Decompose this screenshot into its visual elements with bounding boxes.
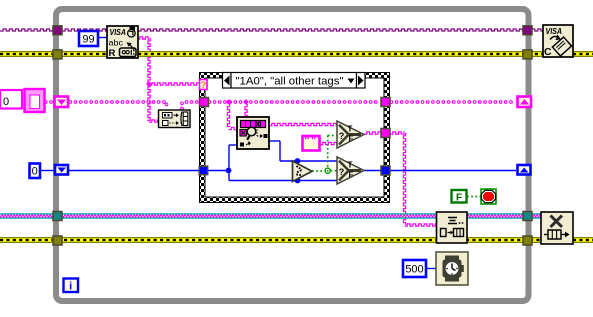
svg-text:VISA: VISA <box>546 27 563 36</box>
constant 0 int <box>30 164 41 179</box>
case structure border <box>199 72 390 203</box>
wire 99 to VISA Read <box>98 37 107 39</box>
svg-text:0: 0 <box>3 96 9 108</box>
shift register int left <box>55 165 68 175</box>
node Build Array <box>159 110 191 128</box>
case tunnel string out right <box>381 129 390 138</box>
wire read buffer out of VISA Read <box>137 37 150 84</box>
node Wait ms <box>436 252 468 285</box>
wire string array out of Build Array <box>181 101 198 110</box>
wire int down and right (lower run) <box>229 171 337 181</box>
wire string array inside case <box>208 101 377 104</box>
wire Search index output <box>269 141 337 161</box>
wire int up to Search element input <box>229 145 237 171</box>
wire junction array-to-search-top <box>243 99 249 105</box>
node Select int <box>337 157 364 184</box>
wire 500 to Wait ms <box>426 268 436 270</box>
wire junction greater-equal bottom <box>295 178 301 184</box>
case tunnel int right <box>381 166 390 175</box>
constant 99 <box>79 31 98 46</box>
tunnel error bottom right <box>523 236 532 245</box>
svg-text:F: F <box>349 170 354 179</box>
wire boolean to select2 <box>331 170 338 172</box>
wire boolean F to stop terminal <box>467 196 481 198</box>
node VISA Read U1 <box>107 26 138 59</box>
wire string to Enqueue element <box>390 132 437 226</box>
wire select1 output to tunnel <box>364 132 381 134</box>
wire boolean junction <box>325 168 330 173</box>
wire 0 to left shift register <box>41 170 54 172</box>
node Select string <box>337 121 364 148</box>
tunnel queue left <box>53 212 62 221</box>
wire error top-right <box>138 52 593 57</box>
case tunnel string array right <box>381 98 390 107</box>
svg-text:99: 99 <box>82 34 94 46</box>
svg-text:?: ? <box>339 167 345 177</box>
wire VISA resource (right) <box>138 29 543 31</box>
wire select2 output to tunnel <box>364 170 381 172</box>
tunnel VISA purple right <box>523 26 532 35</box>
terminal loop iteration i <box>64 279 79 293</box>
constant empty string <box>303 135 320 151</box>
tunnel error top right <box>523 50 532 59</box>
svg-text:T: T <box>348 125 353 134</box>
wire string array into Build Array <box>165 103 168 106</box>
svg-text:"": "" <box>304 135 317 147</box>
shift register string right <box>518 97 532 108</box>
wire string array from shift register <box>69 101 165 104</box>
wire string array const to left shift register <box>45 101 53 104</box>
svg-text:R: R <box>109 48 116 59</box>
wire queue refnum left <box>0 214 437 218</box>
wire queue refnum right <box>466 214 541 218</box>
constant 500 <box>403 260 426 277</box>
wire boolean up to select1 <box>328 136 337 168</box>
svg-text:abc: abc <box>109 39 124 48</box>
wire string array case to right shift register <box>390 101 512 104</box>
svg-text:?: ? <box>200 80 206 91</box>
wire read buffer down to Build Array <box>148 84 159 122</box>
node Greater Or Equal <box>293 161 313 182</box>
wire int from shift register to case <box>69 170 200 172</box>
case tunnel int left <box>199 166 208 175</box>
node Search 1D Array <box>237 117 269 149</box>
wire read buffer to case selector <box>149 83 199 85</box>
wire array down to Search left input <box>227 104 237 130</box>
terminal stop button <box>481 189 496 204</box>
shift register string left <box>55 97 69 108</box>
wire error bottom <box>0 238 593 243</box>
constant empty string array <box>0 89 45 112</box>
constant False <box>452 190 467 204</box>
wire Search string output to select T <box>269 123 337 125</box>
svg-text:?: ? <box>339 131 345 141</box>
svg-text:VISA: VISA <box>110 28 127 37</box>
case selector label <box>223 73 366 89</box>
tunnel error bottom left <box>53 236 62 245</box>
node VISA Close U2 <box>543 25 573 58</box>
wire error in top-left <box>0 52 107 57</box>
shift register int right <box>518 165 531 175</box>
wire array down to Search top <box>245 104 247 117</box>
wire junction greater-equal top <box>295 158 301 164</box>
svg-text:F: F <box>456 193 462 204</box>
wire junction array-to-search-left <box>226 99 232 105</box>
wire boolean from greater-equal <box>312 170 326 172</box>
wire int case to right shift register <box>390 170 516 172</box>
tunnel VISA purple left <box>53 26 62 35</box>
case selector ? terminal <box>200 80 208 92</box>
svg-text:500: 500 <box>405 264 423 276</box>
tunnel queue right <box>523 212 532 221</box>
wire junction read-buffer <box>146 81 151 86</box>
wire int inside case from tunnel <box>208 170 229 172</box>
svg-text:C: C <box>544 46 552 58</box>
wire VISA resource (left) <box>0 29 107 31</box>
node Enqueue Element <box>437 212 468 243</box>
node Release Queue <box>541 212 573 244</box>
tunnel error top left <box>53 50 62 59</box>
svg-text:i: i <box>69 281 72 293</box>
wire int junction <box>226 168 232 174</box>
while loop border <box>56 9 529 301</box>
case tunnel string array left <box>200 98 209 107</box>
svg-text:"1A0", "all other tags": "1A0", "all other tags" <box>236 76 344 88</box>
svg-text:0: 0 <box>32 166 38 178</box>
svg-text:F: F <box>349 134 354 143</box>
svg-text:T: T <box>348 161 353 170</box>
wire empty string const to select F <box>320 142 337 144</box>
